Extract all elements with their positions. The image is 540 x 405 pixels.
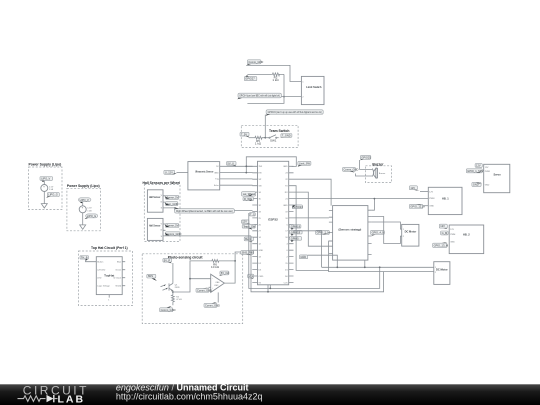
junction <box>283 96 285 98</box>
svg-text:PWM: PWM <box>450 234 455 236</box>
node label GPIO servo <box>466 169 482 173</box>
HB_1 box <box>428 187 462 214</box>
voltage source V1 <box>41 185 48 192</box>
svg-text:12V: 12V <box>476 164 481 168</box>
hall1 out wire <box>163 208 175 211</box>
voltage source V2 <box>79 206 86 213</box>
phototransistor Q1 <box>168 283 170 290</box>
node label GPIO HB1 <box>409 204 422 208</box>
node label gnd <box>160 308 173 312</box>
resistor R4 <box>172 295 175 305</box>
node label GND <box>47 193 59 197</box>
wire <box>82 202 84 206</box>
generator left pins <box>329 210 333 253</box>
svg-text:1.5V: 1.5V <box>87 208 92 210</box>
svg-text:DC Motor: DC Motor <box>436 267 448 271</box>
svg-text:Power Supply (Lipo): Power Supply (Lipo) <box>67 184 100 188</box>
op-amp plus input label <box>196 288 209 292</box>
wire to limit switch pin 2 <box>281 96 301 98</box>
svg-text:Green: Green <box>115 269 122 272</box>
svg-text:GPIO_13_M: GPIO_13_M <box>434 243 448 247</box>
node label GPIO25 <box>360 155 370 159</box>
generator right pins <box>368 210 372 254</box>
svg-text:Power Supply (Lipo): Power Supply (Lipo) <box>29 163 62 167</box>
wire down to Q1 collector <box>172 263 174 283</box>
svg-text:Team Switch: Team Switch <box>269 129 289 133</box>
ground <box>41 204 47 208</box>
svg-text:GPIO19: GPIO19 <box>291 224 301 228</box>
svg-text:GPIO25: GPIO25 <box>361 155 371 159</box>
svg-text:Hall Sensor: Hall Sensor <box>149 195 161 199</box>
svg-text:LIPO_V: LIPO_V <box>41 177 50 181</box>
limit-sw top loop wire <box>246 157 296 167</box>
svg-text:Top Hat Circuit (Perf 1): Top Hat Circuit (Perf 1) <box>91 246 128 250</box>
svg-text:Limit_SW: Limit_SW <box>299 161 311 165</box>
resistor R6 feedback <box>211 260 235 263</box>
limit switch U2 <box>301 76 324 104</box>
HB_2 box <box>449 225 484 254</box>
svg-text:4-H LED: 4-H LED <box>97 270 105 272</box>
svg-text:5V_U: 5V_U <box>227 161 234 165</box>
wire ultrasonic 5V to ESP32 <box>220 165 253 167</box>
svg-text:DC Motor: DC Motor <box>405 229 417 233</box>
svg-text:GND: GND <box>259 250 264 252</box>
svg-text:Ultrasonic Sensor: Ultrasonic Sensor <box>195 170 214 174</box>
svg-text:Sense_5V: Sense_5V <box>167 224 179 228</box>
right pins <box>289 166 294 282</box>
svg-text:Photo-sensing circuit: Photo-sensing circuit <box>168 255 204 259</box>
svg-text:Team_SW: Team_SW <box>243 224 256 228</box>
svg-text:Buzzer: Buzzer <box>372 162 384 166</box>
svg-text:GPIO5: GPIO5 <box>291 237 299 241</box>
wire output up to SNS label <box>235 252 240 254</box>
DC motor 2 <box>434 262 450 285</box>
svg-text:LED: LED <box>97 278 102 280</box>
svg-text:1 kB: 1 kB <box>87 210 92 212</box>
svg-text:5V_OA: 5V_OA <box>221 271 230 275</box>
node label GPIO27 <box>244 77 256 81</box>
bottom bus wires <box>251 236 434 292</box>
svg-text:1 kΩ: 1 kΩ <box>255 142 262 146</box>
svg-text:47 kΩ: 47 kΩ <box>176 299 182 301</box>
pin name stubs <box>259 166 289 284</box>
svg-text:SNS: SNS <box>148 274 154 278</box>
svg-text:Comm_GND: Comm_GND <box>248 60 263 64</box>
wire <box>265 137 269 139</box>
left node labels <box>242 192 256 196</box>
speaker SP1 <box>372 169 373 177</box>
node label left <box>240 132 249 136</box>
switch SW1 <box>269 137 270 138</box>
svg-text:Right Wheel (disconnected, no: Right Wheel (disconnected, no BEC with w… <box>176 209 233 213</box>
svg-text:GPIO_1_SRV: GPIO_1_SRV <box>467 169 483 173</box>
wire <box>86 260 97 262</box>
generator circuit box U7 <box>333 206 368 261</box>
resistor R2 <box>272 73 284 76</box>
wire mesh right of ESP32 <box>294 186 333 271</box>
svg-text:Buzzer: Buzzer <box>379 172 386 175</box>
op-amp supply label top <box>220 271 229 275</box>
svg-text:12V: 12V <box>242 220 247 224</box>
svg-text:Hall Sensor: Hall Sensor <box>149 223 161 227</box>
resistor R5 <box>254 136 265 139</box>
right node labels <box>292 205 302 209</box>
svg-text:Limit Switch: Limit Switch <box>306 85 322 89</box>
node label 12V HB2 <box>439 224 447 228</box>
svg-text:T_5V: T_5V <box>241 132 247 136</box>
logo resistor squiggle <box>18 396 46 402</box>
node label 5V on wire <box>227 161 237 165</box>
wire to speaker lower <box>356 174 373 177</box>
footer <box>0 383 540 405</box>
wire to speaker <box>360 160 373 169</box>
wire right of R2 down <box>247 74 284 103</box>
svg-text:GPIO_4_M: GPIO_4_M <box>372 231 385 235</box>
svg-text:SW1: SW1 <box>270 139 277 143</box>
wire ESP32 to HB1 <box>294 198 429 200</box>
svg-text:GND: GND <box>283 205 288 207</box>
svg-text:Echo: Echo <box>214 185 220 187</box>
svg-text:Comm_GND: Comm_GND <box>161 308 176 312</box>
wire emitter to op-amp <box>173 279 211 292</box>
svg-text:TH_B: TH_B <box>81 255 88 259</box>
svg-text:Sen_GND: Sen_GND <box>167 202 179 206</box>
svg-text:Servo: Servo <box>494 173 502 177</box>
svg-text:G_M: G_M <box>442 231 448 235</box>
svg-text:T_GND: T_GND <box>282 134 291 138</box>
svg-text:Comm_GND: Comm_GND <box>197 288 212 292</box>
svg-text:GND: GND <box>429 206 434 208</box>
svg-text:(Sensors strategy): (Sensors strategy) <box>339 228 362 232</box>
svg-text:10 kΩ: 10 kΩ <box>211 265 220 269</box>
svg-text:12V: 12V <box>485 167 489 169</box>
ultrasonic sensor U4 <box>188 162 220 190</box>
svg-text:5V_P: 5V_P <box>164 258 171 262</box>
node label GPIO13 HB2 <box>433 243 447 247</box>
svg-text:GPIO14 (can) use BEC with will: GPIO14 (can) use BEC with will (out digi… <box>239 94 280 98</box>
wire <box>43 181 45 185</box>
svg-text:GND: GND <box>214 172 219 174</box>
svg-text:ID Clock: ID Clock <box>113 278 122 280</box>
servo box <box>484 164 510 192</box>
wire down to team switch <box>264 115 266 138</box>
TopHat IC U3 <box>96 257 122 295</box>
svg-text:1 kB: 1 kB <box>49 189 54 191</box>
wire to limit switch pin 1 <box>246 65 301 81</box>
svg-text:HB_2: HB_2 <box>463 233 470 237</box>
hall sensor U5 <box>147 190 163 212</box>
svg-text:2N39: 2N39 <box>175 287 181 289</box>
svg-text:ESP32: ESP32 <box>268 218 278 222</box>
node label 5V <box>163 258 172 262</box>
node label V1 top <box>40 177 53 181</box>
node label photo <box>147 274 156 278</box>
svg-text:T_S: T_S <box>250 212 255 216</box>
svg-text:12V: 12V <box>429 191 433 193</box>
svg-text:http://circuitlab.com/chm5hhuu: http://circuitlab.com/chm5hhuua4z2q <box>116 391 263 401</box>
node label 12V HB1 <box>409 186 417 190</box>
output wire <box>224 254 235 283</box>
svg-text:GPIO34 (can't up up use with: GPIO34 (can't up up use with off but dig… <box>268 110 322 114</box>
left pins <box>252 166 257 282</box>
wire <box>43 192 45 204</box>
wire <box>249 137 255 139</box>
node label 12V servo <box>475 164 482 168</box>
svg-text:Comm_GND: Comm_GND <box>205 303 220 307</box>
photo-sensing dashed box <box>142 254 243 324</box>
node label G HB2 <box>441 231 449 235</box>
hall2 labels <box>166 224 179 228</box>
node label GND servo <box>472 182 481 186</box>
op-amp vneg label <box>204 303 217 307</box>
long node label right wheel <box>175 209 235 213</box>
wire <box>82 213 84 225</box>
svg-text:Shield: Shield <box>115 286 122 288</box>
op-amp OA1 <box>211 274 225 292</box>
buzzer dashed box <box>366 166 392 183</box>
node label gen left <box>316 230 330 234</box>
emitter junction wire to resistor <box>172 292 174 295</box>
node label left of ultrasonic <box>164 170 175 174</box>
wire ultrasonic GND to ESP32 <box>220 172 253 174</box>
ground <box>80 225 86 229</box>
node label GND2 <box>86 214 98 218</box>
svg-text:LAB: LAB <box>58 394 86 405</box>
svg-text:1 kΩ: 1 kΩ <box>272 78 279 82</box>
schematic placeholder <box>29 60 510 324</box>
svg-text:12V: 12V <box>410 186 415 190</box>
long node label GPIO34 <box>266 110 323 114</box>
node label TopHat <box>80 256 89 260</box>
svg-text:12V: 12V <box>440 224 445 228</box>
svg-text:PWM: PWM <box>485 171 490 173</box>
node label gen right <box>371 230 385 234</box>
svg-text:LIPO_V: LIPO_V <box>80 198 89 202</box>
svg-text:GND: GND <box>450 242 455 244</box>
svg-text:CMD: CMD <box>259 276 264 278</box>
svg-text:GPIO_12_M: GPIO_12_M <box>410 205 424 209</box>
feedback node wire <box>190 261 211 279</box>
hall2 out wire <box>163 235 251 237</box>
svg-text:GND: GND <box>300 255 306 259</box>
wire left of R2 <box>247 73 271 75</box>
node label V2 top <box>78 198 91 202</box>
DC motor 1 <box>402 224 419 246</box>
svg-text:Logic Voltage: Logic Voltage <box>97 285 110 288</box>
svg-text:12V: 12V <box>450 229 454 231</box>
svg-text:HB_1: HB_1 <box>442 196 449 200</box>
svg-text:SNS_PHO: SNS_PHO <box>242 251 254 255</box>
svg-text:U_12V: U_12V <box>165 170 173 174</box>
svg-text:Button: Button <box>97 261 104 264</box>
hall sensor U6 <box>147 218 163 240</box>
node label Comm_GND top <box>247 60 261 64</box>
logo diode <box>47 395 54 402</box>
node label Comm_GND buzzer <box>343 167 356 171</box>
svg-text:EN: EN <box>259 173 262 175</box>
long node label GPIO14 <box>238 93 281 98</box>
svg-text:LIPO_G: LIPO_G <box>48 193 57 197</box>
svg-text:Comm_GND: Comm_GND <box>167 232 182 236</box>
team switch dashed box <box>241 125 298 147</box>
node label Limit_SW right pin1 <box>298 161 311 165</box>
svg-text:GPIO27: GPIO27 <box>245 77 255 81</box>
svg-text:PWM: PWM <box>429 198 434 200</box>
ESP32 module U1 <box>258 161 289 284</box>
hall1 labels <box>166 195 179 199</box>
svg-text:CLK: CLK <box>284 282 289 284</box>
svg-text:Sense_5V: Sense_5V <box>167 196 179 200</box>
wire ultrasonic Echo <box>220 184 253 186</box>
svg-text:LIPO_G: LIPO_G <box>87 214 96 218</box>
svg-text:SN: SN <box>259 186 262 188</box>
node label right <box>281 134 292 138</box>
svg-text:Comm_GND: Comm_GND <box>344 167 359 171</box>
svg-text:1.5V: 1.5V <box>49 186 54 188</box>
wire ultrasonic Trig <box>220 178 253 180</box>
wire to ESP32 <box>234 209 252 211</box>
svg-text:GND: GND <box>283 166 288 168</box>
junction <box>264 137 266 139</box>
light arrows <box>161 285 168 291</box>
svg-text:GND: GND <box>485 184 490 186</box>
